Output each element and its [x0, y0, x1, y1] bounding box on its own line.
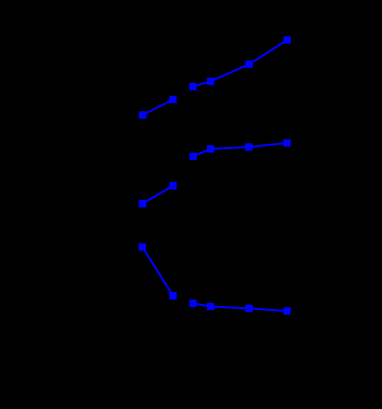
wire middle series segment 2 [193, 143, 287, 156]
wire bottom series segment 1 [142, 247, 173, 296]
wire top series segment 1 [143, 100, 173, 116]
node markers bottom series [139, 243, 291, 314]
node markers top series [139, 36, 291, 118]
wire top series segment 2 [193, 40, 287, 87]
wire bottom series segment 2 [193, 303, 287, 311]
wire middle series segment 1 [143, 186, 174, 204]
node markers middle series [139, 139, 291, 207]
